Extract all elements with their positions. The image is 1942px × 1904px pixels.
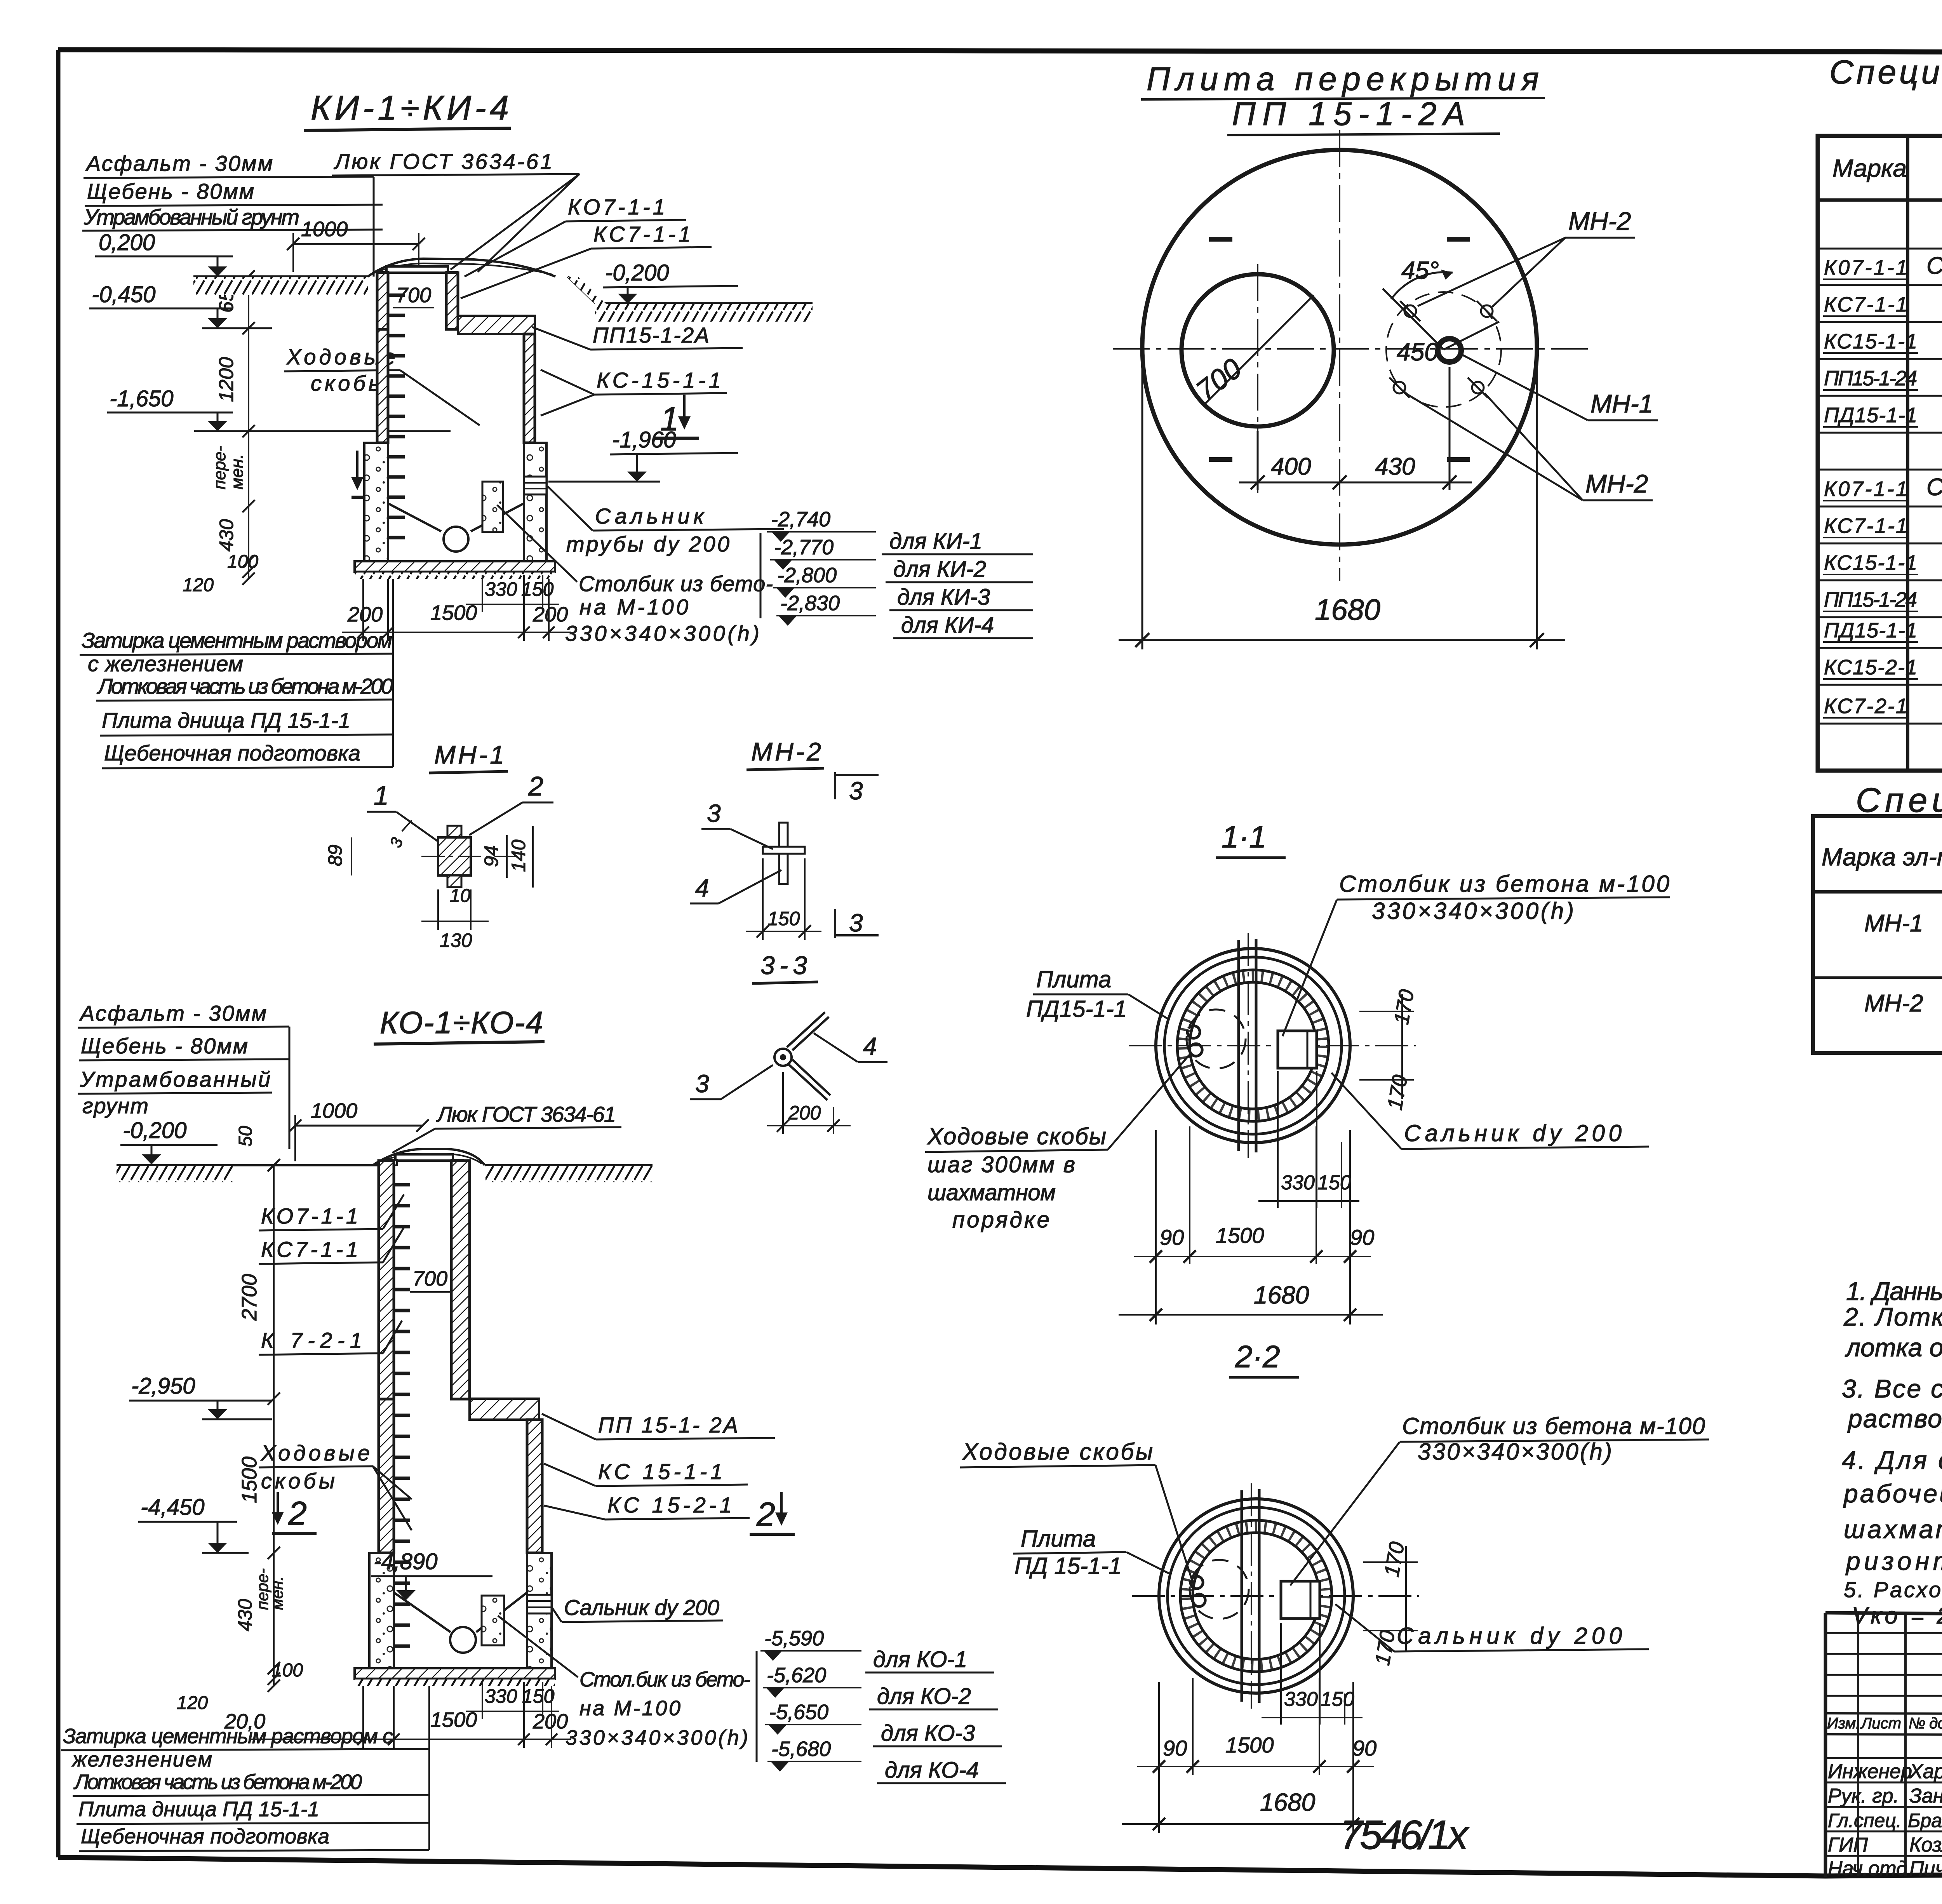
neck walls tall (379, 1161, 394, 1399)
svg-text:-2,800: -2,800 (777, 564, 837, 587)
svg-text:1680: 1680 (1260, 1788, 1316, 1816)
svg-text:-2,830: -2,830 (780, 592, 840, 615)
asphalt mound (368, 259, 555, 277)
svg-text:ГИП: ГИП (1828, 1834, 1868, 1856)
ladder rungs (388, 295, 405, 538)
left dim chain (242, 270, 255, 585)
svg-text:1500: 1500 (430, 601, 477, 625)
svg-text:-1,650: -1,650 (110, 386, 173, 411)
svg-text:Браславский: Браславский (1908, 1810, 1942, 1831)
ladder staples (1190, 1576, 1205, 1606)
svg-text:200: 200 (532, 603, 568, 626)
svg-text:330×340×300(h): 330×340×300(h) (1418, 1439, 1612, 1465)
svg-text:130: 130 (440, 929, 472, 951)
svg-text:ПД15-1-1: ПД15-1-1 (1824, 619, 1917, 642)
svg-text:ПП15-1-24: ПП15-1-24 (1824, 588, 1917, 611)
svg-text:Изм.: Изм. (1827, 1715, 1860, 1732)
svg-text:1500: 1500 (1216, 1223, 1264, 1248)
dim 1680 (1119, 357, 1565, 649)
svg-text:КО-1÷КО-4: КО-1÷КО-4 (380, 1005, 543, 1040)
svg-text:90: 90 (1352, 1736, 1376, 1760)
svg-text:1500: 1500 (238, 1457, 261, 1503)
stolbik inside (482, 1596, 504, 1645)
svg-text:150: 150 (1317, 1171, 1351, 1194)
dim 400/430 (1239, 367, 1472, 490)
ring circles (1156, 949, 1350, 1143)
svg-text:Плита днища ПД 15-1-1: Плита днища ПД 15-1-1 (78, 1798, 319, 1821)
svg-text:Щебеночная подготовка: Щебеночная подготовка (104, 741, 360, 765)
stolbik inside (482, 482, 503, 532)
svg-text:Щебень - 80мм: Щебень - 80мм (81, 1034, 248, 1058)
monolithic walls (369, 1553, 394, 1668)
svg-text:100: 100 (227, 552, 258, 572)
salnik penetration (527, 1595, 552, 1613)
svg-text:МН-1: МН-1 (1590, 389, 1653, 418)
svg-text:Столбик из бетона м-100: Столбик из бетона м-100 (1339, 871, 1669, 897)
svg-text:200: 200 (788, 1102, 821, 1124)
svg-text:№ документа: № документа (1909, 1715, 1942, 1732)
ground left (193, 275, 368, 278)
svg-text:-5,650: -5,650 (769, 1700, 828, 1724)
svg-text:450: 450 (1397, 338, 1438, 366)
PP slab (470, 1399, 539, 1420)
svg-text:с железнением: с железнением (88, 651, 243, 676)
svg-text:0,200: 0,200 (99, 230, 155, 255)
svg-text:50: 50 (235, 1126, 256, 1147)
svg-text:3-3: 3-3 (760, 951, 807, 980)
svg-text:ПП15-1-24: ПП15-1-24 (1824, 367, 1917, 390)
svg-text:Утрамбованный: Утрамбованный (80, 1067, 270, 1091)
ladder staples (1187, 1026, 1202, 1056)
svg-text:грунт: грунт (82, 1093, 148, 1118)
svg-text:150: 150 (522, 1685, 555, 1707)
svg-text:Плита перекрытия: Плита перекрытия (1147, 61, 1539, 97)
svg-text:шаг 300мм в: шаг 300мм в (927, 1152, 1075, 1177)
svg-text:Пичахчи: Пичахчи (1909, 1857, 1942, 1880)
svg-text:150: 150 (767, 908, 800, 929)
manhole cover (395, 1154, 453, 1161)
svg-text:2700: 2700 (238, 1274, 261, 1321)
svg-text:Инженер: Инженер (1828, 1760, 1912, 1783)
svg-text:Зантберг: Зантберг (1909, 1785, 1942, 1807)
bent hook bar (774, 1012, 830, 1100)
svg-text:Лотковая часть из бетона м-200: Лотковая часть из бетона м-200 (97, 674, 393, 698)
svg-text:КС-15-1-1: КС-15-1-1 (597, 368, 721, 392)
ground right (568, 277, 813, 303)
svg-text:Утрамбованный грунт: Утрамбованный грунт (84, 205, 299, 229)
svg-text:Козловская: Козловская (1909, 1834, 1942, 1856)
section mark 1 left (356, 451, 358, 485)
svg-text:шахматном порядке с расстоя: шахматном порядке с расстоянием по верти… (1844, 1515, 1942, 1544)
svg-text:Люк ГОСТ 3634-61: Люк ГОСТ 3634-61 (436, 1102, 616, 1126)
svg-text:3: 3 (849, 777, 863, 805)
svg-text:ПП15-1-2А: ПП15-1-2А (593, 323, 709, 347)
stolbik block (1281, 1581, 1320, 1619)
svg-text:Спецификация сборных железоб: Спецификация сборных железобетонных (1829, 54, 1942, 91)
svg-text:120: 120 (177, 1693, 208, 1713)
svg-text:Столбик из бето-: Столбик из бето- (579, 571, 773, 596)
MN-1 center pipe (1438, 339, 1461, 362)
svg-text:1. Данный лист комплектен с: 1. Данный лист комплектен с листами КЖ-9… (1846, 1277, 1942, 1305)
svg-text:КС 15-1-1: КС 15-1-1 (598, 1459, 722, 1484)
manhole hole circle 700 (1182, 274, 1334, 426)
svg-text:Щебень - 80мм: Щебень - 80мм (87, 179, 254, 204)
svg-text:-4,890: -4,890 (374, 1549, 437, 1574)
svg-text:140: 140 (508, 839, 529, 872)
svg-text:3: 3 (849, 909, 863, 937)
partition wall band (1241, 1490, 1243, 1702)
svg-text:-5,590: -5,590 (764, 1627, 824, 1650)
svg-text:Затирка цементным раствором: Затирка цементным раствором (82, 628, 392, 653)
svg-text:МН-1: МН-1 (1864, 910, 1923, 937)
svg-text:330: 330 (485, 578, 517, 600)
svg-text:150: 150 (1321, 1688, 1354, 1711)
svg-text:на М-100: на М-100 (579, 1697, 680, 1720)
2700 dim (268, 1159, 280, 1692)
bottom slab (355, 1668, 555, 1679)
manhole cover (386, 266, 448, 273)
svg-text:Затирка цементным раствором с: Затирка цементным раствором с (63, 1725, 393, 1748)
svg-text:для КО-2: для КО-2 (877, 1684, 971, 1709)
svg-text:для КО-3: для КО-3 (881, 1721, 975, 1746)
dim 89 (351, 837, 352, 875)
interior floor + channel (394, 1592, 451, 1632)
center lines (1129, 933, 1416, 1158)
svg-text:330×340×300(h): 330×340×300(h) (1372, 898, 1574, 924)
svg-text:ПП 15-1-2А: ПП 15-1-2А (1232, 96, 1465, 132)
svg-text:для КО-4: для КО-4 (885, 1758, 979, 1783)
svg-text:1200: 1200 (215, 357, 238, 402)
ladder rungs (394, 1185, 410, 1646)
svg-text:Vко = 2,3м.³: Vко = 2,3м.³ (1852, 1603, 1942, 1629)
svg-text:для КИ-3: для КИ-3 (897, 585, 990, 610)
svg-text:Люк ГОСТ 3634-61: Люк ГОСТ 3634-61 (334, 149, 552, 174)
svg-text:700: 700 (412, 1267, 447, 1290)
svg-text:Стол.бик из бето-: Стол.бик из бето- (579, 1668, 750, 1691)
svg-text:мен.: мен. (268, 1576, 286, 1610)
svg-text:Плита: Плита (1036, 966, 1111, 992)
svg-text:-4,450: -4,450 (141, 1495, 204, 1520)
svg-text:2: 2 (756, 1496, 775, 1533)
svg-text:-5,680: -5,680 (771, 1737, 831, 1761)
ground (117, 1164, 379, 1166)
svg-text:МН-2: МН-2 (1585, 469, 1648, 498)
svg-text:2·2: 2·2 (1235, 1339, 1280, 1374)
svg-text:-0,200: -0,200 (605, 260, 669, 285)
dims 94 and 140 (506, 835, 508, 878)
svg-text:МН-2: МН-2 (1864, 990, 1923, 1017)
hole diameter line 700 (1204, 295, 1314, 405)
dim 170/170 (1363, 1561, 1418, 1563)
svg-text:90: 90 (1163, 1736, 1187, 1760)
svg-text:330: 330 (1284, 1688, 1318, 1711)
table grid (1818, 136, 1942, 771)
svg-text:-5,620: -5,620 (767, 1664, 826, 1687)
svg-text:200: 200 (532, 1710, 568, 1733)
svg-text:для КИ-4: для КИ-4 (901, 613, 994, 638)
partition wall band (1237, 940, 1240, 1151)
crop dashes (1209, 239, 1470, 459)
svg-text:растворе м-50.: растворе м-50. (1847, 1404, 1942, 1433)
svg-text:Сальник dу 200: Сальник dу 200 (564, 1595, 719, 1620)
svg-text:7546/1х: 7546/1х (1340, 1812, 1470, 1858)
svg-text:1000: 1000 (301, 218, 348, 241)
svg-text:-0,450: -0,450 (92, 282, 155, 307)
dlya KO levels (756, 1651, 758, 1762)
svg-text:лотка осуществляется по спе: лотка осуществляется по специальным шабл… (1845, 1333, 1942, 1362)
svg-text:-2,950: -2,950 (131, 1373, 195, 1399)
svg-text:89: 89 (324, 844, 346, 866)
svg-text:200: 200 (347, 603, 383, 626)
center lines (1113, 130, 1590, 581)
svg-text:10: 10 (450, 886, 471, 906)
svg-text:для КИ-2: для КИ-2 (893, 557, 986, 582)
svg-text:на М-100: на М-100 (579, 595, 688, 619)
svg-text:железнением: железнением (71, 1748, 212, 1771)
45 deg line and arc (1383, 289, 1444, 350)
svg-text:1500: 1500 (1225, 1733, 1274, 1757)
svg-text:90: 90 (1160, 1225, 1184, 1250)
svg-text:Харченко: Харченко (1909, 1760, 1942, 1783)
svg-text:Ходовые скобы: Ходовые скобы (927, 1123, 1106, 1149)
svg-text:1680: 1680 (1254, 1281, 1309, 1309)
svg-text:МН-1: МН-1 (434, 740, 504, 769)
svg-text:КС15-1-1: КС15-1-1 (1824, 551, 1917, 574)
section mark 2 left (277, 1492, 279, 1519)
svg-text:330: 330 (1281, 1171, 1315, 1194)
svg-text:430: 430 (1375, 453, 1415, 480)
svg-text:шахматном: шахматном (927, 1180, 1056, 1205)
svg-text:КИ-1÷КИ-4: КИ-1÷КИ-4 (311, 89, 509, 127)
svg-text:КС 15-2-1: КС 15-2-1 (607, 1493, 732, 1517)
SEC22 (1818, 54, 1942, 771)
monolithic walls (364, 443, 388, 561)
svg-text:-0,200: -0,200 (123, 1118, 186, 1143)
svg-text:4: 4 (863, 1032, 877, 1060)
svg-text:-2,770: -2,770 (774, 536, 834, 559)
svg-text:400: 400 (1271, 453, 1311, 480)
svg-text:рабочей части предусмотрены: рабочей части предусмотрены скобы, устан… (1843, 1479, 1942, 1508)
MN-2 anchors (1400, 301, 1420, 321)
svg-text:МН-2: МН-2 (1568, 207, 1631, 235)
title block grid (1825, 1613, 1942, 1877)
svg-text:Плита днища ПД 15-1-1: Плита днища ПД 15-1-1 (102, 708, 350, 733)
svg-text:3: 3 (695, 1070, 709, 1098)
svg-text:Столбик из бетона м-100: Столбик из бетона м-100 (1402, 1413, 1705, 1439)
svg-text:ПД15-1-1: ПД15-1-1 (1824, 404, 1917, 427)
svg-text:430: 430 (234, 1599, 256, 1631)
PP slab (458, 316, 535, 334)
svg-text:2: 2 (528, 771, 543, 801)
stolbik block (1278, 1031, 1317, 1068)
svg-text:1500: 1500 (430, 1708, 477, 1732)
ring circles (1159, 1499, 1353, 1693)
svg-text:Гл.спец.: Гл.спец. (1828, 1810, 1902, 1831)
MN-1 body: tube with flange (447, 826, 461, 837)
svg-text:пере-: пере- (210, 446, 229, 489)
hole dashed circle (1187, 1009, 1246, 1069)
svg-text:94: 94 (480, 845, 502, 867)
svg-text:Нач.отд: Нач.отд (1828, 1857, 1907, 1880)
svg-text:120: 120 (183, 575, 214, 595)
svg-text:45°: 45° (1401, 256, 1439, 284)
svg-text:Рук. гр.: Рук. гр. (1828, 1785, 1899, 1807)
svg-text:1000: 1000 (311, 1099, 357, 1123)
svg-text:100: 100 (272, 1660, 303, 1681)
svg-text:3: 3 (707, 799, 721, 827)
dlya KI levels (760, 533, 762, 618)
TABLE3 (1340, 1277, 1942, 1858)
chamber walls (379, 1399, 394, 1553)
svg-text:330×340×300(h): 330×340×300(h) (565, 621, 759, 646)
section mark 3 bottom (834, 909, 836, 938)
svg-text:1680: 1680 (1315, 593, 1380, 627)
cross bars (779, 823, 788, 884)
svg-text:для КО-1: для КО-1 (873, 1647, 967, 1672)
svg-text:Марка эл-та: Марка эл-та (1822, 843, 1942, 871)
svg-text:-2,740: -2,740 (771, 508, 830, 531)
svg-text:4: 4 (695, 874, 709, 902)
dim 170/170 (1359, 1011, 1414, 1012)
svg-text:90: 90 (1350, 1225, 1374, 1250)
svg-text:ПД 15-1-1: ПД 15-1-1 (1015, 1553, 1122, 1579)
chamber walls (377, 329, 388, 443)
svg-text:430: 430 (216, 519, 237, 552)
svg-text:трубы dу 200: трубы dу 200 (566, 532, 729, 556)
svg-text:для КИ-1: для КИ-1 (889, 529, 982, 554)
slab outer circle (1142, 150, 1537, 545)
svg-text:КС15-2-1: КС15-2-1 (1824, 656, 1917, 679)
svg-text:2: 2 (288, 1495, 307, 1532)
svg-text:Плита: Плита (1021, 1526, 1096, 1552)
svg-text:ПД15-1-1: ПД15-1-1 (1026, 996, 1127, 1022)
svg-text:Марка: Марка (1832, 154, 1907, 182)
bottom slab (355, 561, 555, 572)
svg-text:330×340×300(h): 330×340×300(h) (566, 1726, 748, 1749)
dim 200 (782, 1072, 784, 1134)
svg-text:КС15-1-1: КС15-1-1 (1824, 330, 1917, 353)
salnik penetration (524, 477, 546, 494)
dim 150 (762, 858, 764, 940)
center lines (1132, 1483, 1419, 1709)
neck walls (377, 273, 388, 329)
svg-text:Щебеночная подготовка: Щебеночная подготовка (81, 1825, 329, 1848)
svg-text:Ходовые скобы: Ходовые скобы (962, 1439, 1153, 1465)
section mark 3 top (834, 772, 836, 799)
svg-text:330: 330 (485, 1685, 517, 1707)
svg-text:Серия 3.900-2 в.5: Серия 3.900-2 в.5 (1926, 252, 1942, 279)
svg-text:1: 1 (374, 780, 389, 811)
svg-text:Лотковая часть из бетона м-200: Лотковая часть из бетона м-200 (73, 1770, 362, 1794)
svg-text:Лист: Лист (1860, 1715, 1901, 1732)
svg-text:Серия 3.900-2 в.5: Серия 3.900-2 в.5 (1926, 474, 1942, 501)
interior floor and channel (388, 503, 441, 531)
dim 130 (437, 889, 439, 930)
svg-text:1·1: 1·1 (1222, 820, 1267, 854)
svg-text:мен.: мен. (228, 454, 247, 489)
bolt circle dashed (1386, 292, 1501, 407)
hole dashed circle (1190, 1560, 1249, 1619)
svg-text:МН-2: МН-2 (751, 737, 821, 766)
svg-text:-1,960: -1,960 (612, 427, 676, 453)
